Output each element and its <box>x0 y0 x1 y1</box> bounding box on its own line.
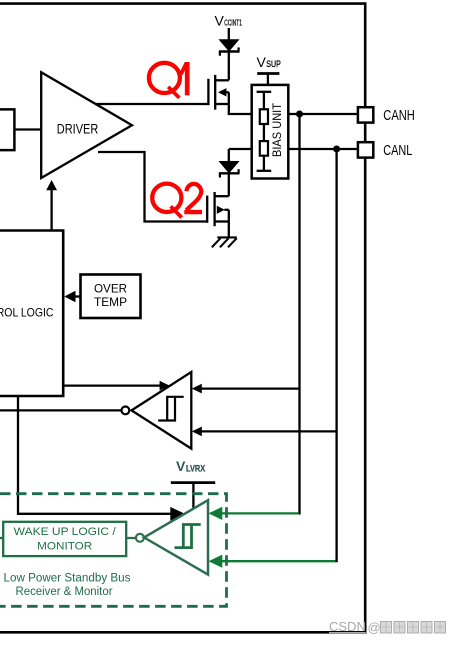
wire TXD to driver <box>14 128 41 130</box>
main IC boundary box <box>0 4 365 633</box>
wire control logic to wake-up comparator (arrow right) <box>18 396 175 514</box>
input pin box (TXD, cut off at left) <box>0 109 14 150</box>
wire wake up box left stub <box>0 537 3 539</box>
dashed low power standby box <box>0 494 227 607</box>
bias unit block U2 <box>252 85 289 179</box>
op-amp U1 DRIVER triangle <box>41 72 132 178</box>
hysteresis symbol U4 <box>175 525 201 548</box>
wire VCCINT1 to zener D1 <box>228 28 230 40</box>
svg-text:@: @ <box>368 620 381 635</box>
svg-text:V: V <box>257 54 267 70</box>
node CANH junction <box>296 111 303 118</box>
over temp box <box>81 275 141 319</box>
wire control logic to receiver enable (arrow right) <box>63 384 160 386</box>
wire zener D1 to Q1 drain <box>228 52 230 81</box>
supply bar VLVRX <box>171 481 215 484</box>
svg-text:V: V <box>176 458 186 474</box>
supply bar VSUP <box>257 72 279 75</box>
wire CANH rail right <box>288 113 358 115</box>
svg-text:WAKE UP LOGIC /: WAKE UP LOGIC / <box>14 526 117 538</box>
wire zener D2 from CANL rail <box>228 149 230 162</box>
op-amp U3 receiver triangle <box>132 372 192 449</box>
bias unit internal rail <box>257 92 272 171</box>
wire CANH to receiver input (arrow left) <box>201 387 300 389</box>
label Q1 <box>149 62 187 98</box>
resistor R2 <box>260 141 268 156</box>
svg-text:CCINT1: CCINT1 <box>224 19 242 28</box>
svg-text:CANH: CANH <box>383 108 415 124</box>
wire control logic to driver (arrow up) <box>50 190 52 231</box>
receiver bubble <box>122 407 130 415</box>
pin CANH <box>358 107 373 122</box>
svg-text:TEMP: TEMP <box>94 295 127 309</box>
resistor R1 <box>260 109 268 124</box>
wire receiver output to RXD (left) <box>0 409 122 411</box>
wire driver upper output to Q1 gate <box>96 103 209 105</box>
svg-text:Low Power Standby Bus: Low Power Standby Bus <box>4 573 131 585</box>
svg-text:SUP: SUP <box>266 59 281 70</box>
wire driver lower output to Q2 gate <box>98 152 207 222</box>
wire over temp to control logic (arrow left) <box>74 295 81 297</box>
svg-text:OVER: OVER <box>94 281 127 295</box>
control logic box (cut off at left) <box>0 231 63 397</box>
ground <box>212 237 237 247</box>
op-amp U4 low power receiver triangle (green) <box>144 500 208 574</box>
zener diode D1 <box>219 40 240 56</box>
svg-text:LVRX: LVRX <box>186 463 206 474</box>
label Q2 <box>152 184 182 218</box>
svg-text:CANL: CANL <box>383 143 412 159</box>
hysteresis symbol U3 <box>158 397 184 421</box>
svg-text:BIAS UNIT: BIAS UNIT <box>270 102 284 157</box>
bias unit label <box>270 102 284 157</box>
wire CANL rail right <box>288 148 358 150</box>
svg-text:CONTROL LOGIC: CONTROL LOGIC <box>0 306 54 320</box>
transistor Q2 (N-MOSFET) <box>207 192 229 238</box>
wire CANL to low power receiver (green arrow) <box>218 560 336 562</box>
wire CANL rail left <box>229 148 252 150</box>
svg-text:CSDN: CSDN <box>329 619 366 634</box>
wire wake up box to bubble <box>126 537 136 539</box>
wire CANH vertical drop <box>298 114 300 515</box>
wire CANH to low power receiver (green arrow) <box>218 512 299 514</box>
svg-text:Receiver & Monitor: Receiver & Monitor <box>16 586 113 598</box>
wire CANL to receiver input (arrow left) <box>201 430 337 432</box>
svg-text:DRIVER: DRIVER <box>57 120 99 136</box>
transistor Q1 (P-MOSFET) <box>208 75 252 114</box>
node CANL junction <box>333 146 340 153</box>
wake up logic box <box>3 522 126 556</box>
green receiver bubble <box>136 534 144 542</box>
svg-text:MONITOR: MONITOR <box>37 541 92 553</box>
wire CANL vertical drop <box>335 149 337 562</box>
wire zener D2 to Q2 drain <box>228 173 230 196</box>
svg-text:V: V <box>215 12 225 28</box>
zener diode D2 <box>219 162 240 178</box>
pin CANL <box>358 142 373 157</box>
